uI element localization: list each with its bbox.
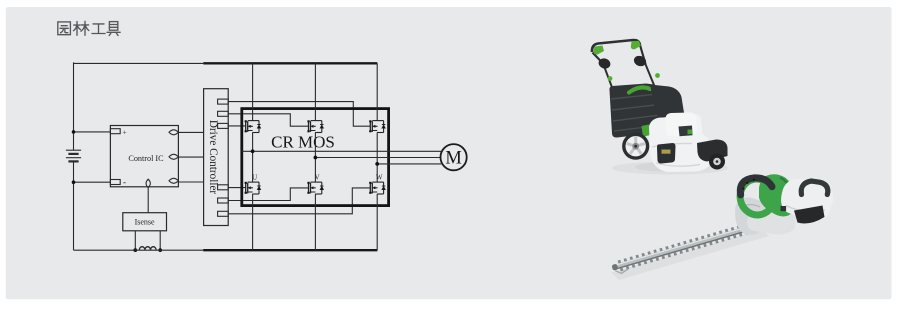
wire gate W low	[228, 188, 370, 214]
svg-text:+: +	[122, 128, 126, 137]
wire Control IC sense pin down to Isense	[147, 188, 149, 213]
trimmer front loop handle	[737, 175, 778, 219]
svg-text:V: V	[315, 174, 320, 182]
trimmer logo	[781, 206, 787, 211]
transistor Q4 U low-side MOSFET	[245, 182, 261, 194]
mower bag green handle	[629, 87, 651, 92]
trimmer motor housing green	[759, 174, 794, 216]
林	[74, 21, 89, 35]
mower deck body	[649, 114, 713, 172]
trimmer battery pack	[794, 206, 825, 224]
svg-text:Control IC: Control IC	[128, 154, 164, 163]
svg-text:Isense: Isense	[135, 218, 155, 227]
园	[58, 22, 71, 35]
svg-text:CR MOS: CR MOS	[271, 133, 335, 152]
wire Control IC out1 to Drive Controller	[178, 131, 203, 133]
mower front wheel	[622, 133, 649, 160]
svg-text:M: M	[445, 149, 461, 169]
transistor Q1 U high-side MOSFET	[245, 120, 261, 132]
wire V phase vertical	[314, 63, 316, 250]
mower handle frame	[592, 40, 665, 118]
wire battery minus to Control IC	[74, 181, 111, 183]
wire bottom rail thick bus	[203, 249, 377, 251]
pin LO3 (drive right)	[218, 211, 229, 216]
title 园林工具	[58, 21, 120, 35]
op-amp/controller U1 Control IC box	[110, 126, 178, 187]
transistor Q6 W low-side MOSFET	[369, 182, 385, 194]
svg-text:W: W	[376, 174, 383, 182]
mower motor cover dark	[650, 85, 685, 123]
transistor Q3 W high-side MOSFET	[369, 120, 385, 132]
wire Control IC out2 to Drive Controller	[178, 156, 203, 158]
svg-text:U: U	[252, 174, 257, 182]
transistor Q5 V low-side MOSFET	[307, 182, 323, 194]
wire gate U low	[228, 187, 246, 189]
pin out3 (Control IC right bottom)	[169, 178, 178, 183]
wire Control IC out3 to Drive Controller	[178, 181, 203, 183]
mower white motor housing	[666, 113, 698, 137]
pin HO2 (drive right)	[218, 111, 229, 116]
pin sense (Control IC bottom)	[146, 179, 150, 187]
wire gate W high	[228, 102, 370, 127]
pin HO1 (drive right)	[218, 99, 229, 104]
wire phase U to motor	[242, 150, 441, 152]
pin plus (Control IC left top)	[110, 129, 120, 134]
wire battery vertical upper	[73, 62, 75, 150]
wire bottom rail thin	[74, 249, 204, 251]
工	[92, 24, 105, 34]
module CR MOS box	[242, 109, 389, 206]
wire battery plus to Control IC	[74, 131, 111, 133]
wire gate V high	[228, 114, 308, 126]
motor M1	[441, 144, 467, 170]
node phase W	[375, 162, 379, 166]
trimmer lower gearbox	[747, 210, 796, 235]
trimmer white body	[781, 179, 833, 221]
wire gate V low	[228, 188, 308, 201]
具	[107, 22, 120, 36]
trimmer rear handle	[801, 181, 828, 195]
battery BT1	[66, 150, 81, 161]
pin LO1 (drive right)	[218, 185, 229, 190]
mower handle green grips	[594, 41, 660, 81]
node phase U	[251, 149, 255, 153]
wire Isense right leg	[159, 231, 161, 250]
mower brake levers	[597, 57, 612, 71]
pin out2 (Control IC right middle)	[169, 154, 178, 159]
trimmer hand guard plate	[735, 197, 766, 235]
node battery minus junction	[72, 180, 76, 184]
trimmer blade	[611, 223, 757, 275]
wire gate U high	[228, 125, 246, 127]
wire W phase vertical	[376, 63, 378, 250]
IC U2 Drive Controller box	[204, 89, 229, 226]
mower housing dark window	[679, 126, 693, 137]
pin minus (Control IC left bottom)	[110, 180, 120, 185]
mower ground shadow	[612, 162, 728, 175]
node battery plus junction	[72, 130, 76, 134]
svg-text:Drive Controller: Drive Controller	[207, 120, 219, 195]
pin HO3 (drive right)	[218, 123, 229, 128]
node Isense left junction	[133, 248, 137, 252]
wire U phase vertical	[252, 63, 254, 250]
wire top rail thin (battery + to drive area)	[74, 62, 204, 64]
node phase V	[314, 156, 318, 160]
trimmer blade shadow	[611, 230, 769, 281]
resistor block Isense	[123, 213, 167, 231]
mower green deck accent	[642, 125, 651, 137]
wire top rail thick bus	[203, 62, 377, 64]
inductor L1 shunt coil	[139, 247, 156, 250]
pin out1 (Control IC right top)	[169, 130, 178, 135]
wire Isense left leg	[134, 231, 136, 250]
svg-text:-: -	[123, 177, 126, 187]
transistor Q2 V high-side MOSFET	[307, 120, 323, 132]
pin LO2 (drive right)	[218, 198, 229, 203]
node Isense right junction	[158, 248, 162, 252]
mower rear housing and caster	[697, 140, 728, 170]
mower battery door	[657, 143, 676, 164]
wire battery vertical lower	[73, 161, 75, 250]
wire phase V to motor	[315, 157, 440, 159]
mower grass bag	[609, 84, 660, 138]
wire phase W to motor	[377, 163, 441, 165]
